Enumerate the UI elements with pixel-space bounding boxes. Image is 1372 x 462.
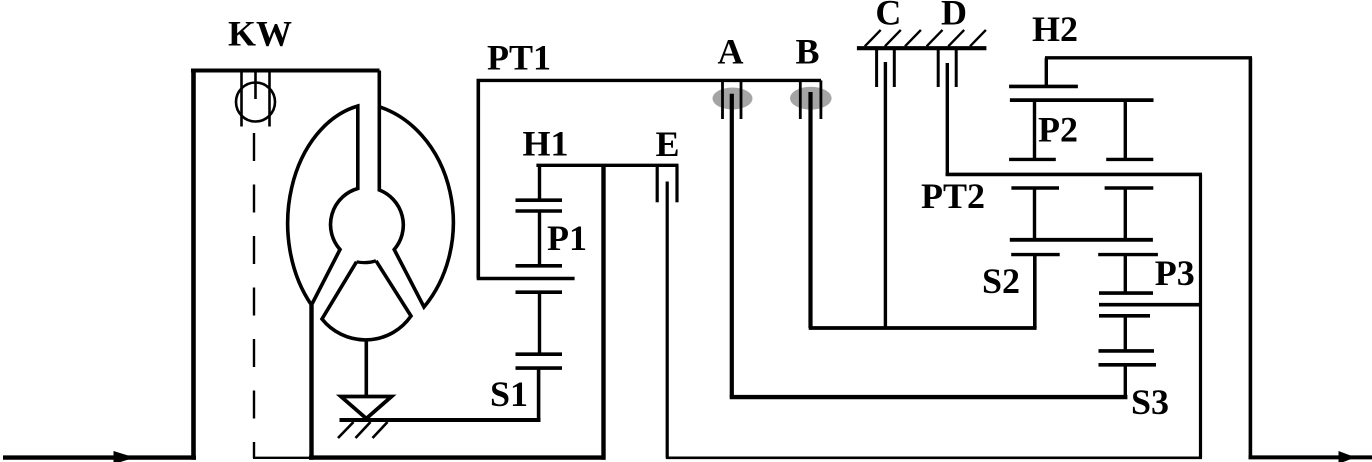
svg-text:H1: H1 (523, 124, 569, 164)
svg-text:S1: S1 (490, 374, 528, 414)
svg-text:P1: P1 (547, 218, 587, 258)
svg-text:A: A (718, 32, 744, 72)
svg-text:S3: S3 (1131, 382, 1169, 422)
svg-text:B: B (796, 32, 820, 72)
svg-text:H2: H2 (1032, 9, 1078, 49)
svg-text:E: E (656, 124, 680, 164)
svg-text:D: D (941, 0, 967, 33)
svg-text:PT2: PT2 (921, 176, 985, 216)
svg-text:P2: P2 (1038, 110, 1078, 150)
svg-text:KW: KW (228, 14, 292, 54)
svg-text:S2: S2 (982, 261, 1020, 301)
svg-text:PT1: PT1 (487, 38, 551, 78)
svg-text:C: C (875, 0, 901, 33)
svg-text:P3: P3 (1155, 253, 1195, 293)
